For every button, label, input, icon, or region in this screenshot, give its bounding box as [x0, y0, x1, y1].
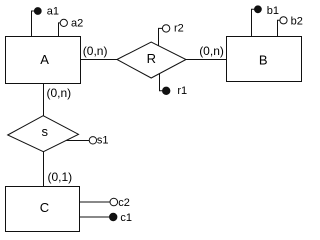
- svg-text:b1: b1: [267, 5, 279, 17]
- attribute r1 stem: [160, 74, 163, 91]
- svg-text:(0,n): (0,n): [83, 44, 108, 58]
- wire R-B: [186, 59, 227, 61]
- svg-text:c1: c1: [120, 212, 132, 224]
- attribute b2 stem: [278, 20, 280, 36]
- wire A-R: [81, 59, 118, 61]
- attribute b1 stem: [252, 9, 255, 36]
- svg-text:r2: r2: [174, 22, 184, 34]
- svg-text:(0,n): (0,n): [47, 86, 72, 100]
- svg-text:R: R: [147, 51, 156, 66]
- attribute c2 circle (open): [110, 198, 118, 206]
- entity B: [227, 37, 302, 82]
- svg-text:(0,n): (0,n): [199, 44, 224, 58]
- svg-text:(0,1): (0,1): [48, 170, 73, 184]
- attribute a1 stem: [32, 11, 35, 37]
- attribute c2 wire: [80, 201, 110, 203]
- relationship s: [8, 116, 79, 152]
- svg-text:a2: a2: [71, 17, 83, 29]
- svg-text:s: s: [42, 124, 49, 139]
- attribute s1 circle (open): [89, 137, 96, 144]
- svg-text:C: C: [40, 200, 49, 215]
- svg-text:b2: b2: [291, 15, 303, 27]
- attribute a2 stem: [59, 23, 61, 37]
- svg-text:c2: c2: [118, 197, 130, 209]
- svg-text:s1: s1: [97, 135, 109, 147]
- svg-text:A: A: [40, 52, 49, 67]
- attribute b1 circle (filled): [255, 6, 262, 13]
- attribute r1 circle (filled): [163, 87, 170, 94]
- svg-text:r1: r1: [177, 85, 187, 97]
- attribute c1 circle (filled): [110, 213, 117, 220]
- attribute c1 wire: [80, 216, 110, 218]
- entity C: [6, 187, 80, 232]
- attribute b2 circle (open): [280, 17, 287, 24]
- svg-text:a1: a1: [47, 5, 59, 17]
- attribute s1 wire: [67, 140, 90, 142]
- attribute a1 circle (filled): [34, 8, 41, 15]
- svg-text:B: B: [259, 53, 268, 68]
- attribute a2 circle (open): [60, 19, 67, 26]
- attribute r2 circle (open): [162, 25, 169, 32]
- entity A: [6, 37, 81, 84]
- wire s-C: [43, 152, 45, 187]
- relationship R: [117, 42, 186, 78]
- attribute r2 stem: [159, 28, 163, 45]
- wire A-s: [43, 84, 45, 117]
